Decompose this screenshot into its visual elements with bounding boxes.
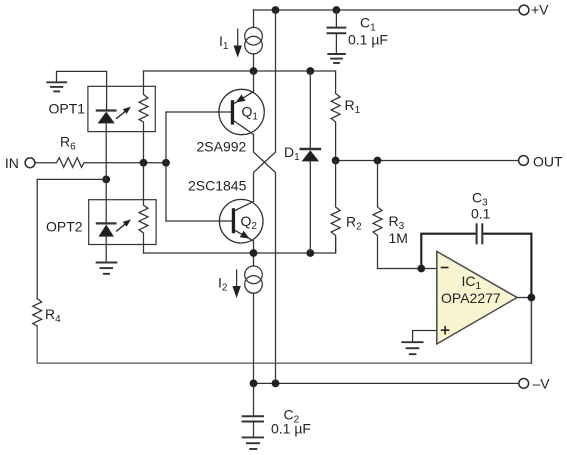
node dot inverting input [417, 265, 425, 273]
svg-text:Q1: Q1 [242, 104, 259, 123]
svg-text:0.1 µF: 0.1 µF [348, 32, 388, 48]
OPT1 box [88, 86, 155, 131]
resistor R2 [331, 161, 340, 254]
photoresistor OPT1 [139, 71, 148, 163]
resistor R4 [33, 299, 42, 327]
svg-text:1M: 1M [389, 230, 408, 246]
wire base line Q1/Q2 [165, 112, 167, 221]
wire op-amp output to node [517, 297, 531, 299]
svg-text:R2: R2 [346, 214, 362, 233]
op-amp IC1 [437, 251, 517, 344]
ground OPT2 [97, 263, 117, 274]
wire R4 node to R4 [37, 179, 106, 298]
ground op-amp [402, 342, 422, 354]
LED OPT1 [97, 86, 116, 163]
node dot D1 top [306, 67, 314, 75]
wire from +V rail down to crossover [275, 10, 277, 152]
node dot base line / IN [162, 159, 170, 167]
terminal IN [25, 158, 35, 168]
diode D1 [301, 71, 320, 253]
node dot LED chain / R4 [102, 176, 110, 184]
svg-text:OUT: OUT [533, 153, 563, 169]
wire OUT line [336, 160, 519, 162]
svg-text:Q2: Q2 [241, 213, 258, 232]
OPT2 box [89, 200, 156, 245]
wire noninverting input to ground [413, 331, 437, 342]
svg-text:0.1: 0.1 [471, 205, 491, 221]
terminal -V [519, 379, 529, 389]
node dot C1 top [333, 6, 341, 14]
resistor R3 [373, 161, 421, 269]
svg-text:+V: +V [531, 1, 549, 17]
wire op-amp output down [530, 298, 532, 364]
svg-text:R4: R4 [45, 306, 61, 325]
svg-text:OPT1: OPT1 [49, 101, 86, 117]
terminal +V [519, 5, 529, 15]
svg-text:OPA2277: OPA2277 [441, 290, 501, 306]
svg-text:–V: –V [533, 376, 551, 392]
wire node row y253 [144, 237, 336, 254]
capacitor C2 [243, 383, 263, 436]
transistor Q2 [219, 199, 263, 243]
wire -V rail [254, 382, 519, 384]
svg-text:0.1 µF: 0.1 µF [271, 421, 311, 437]
arrow OPT2 emission [117, 219, 131, 231]
wire inverting input [421, 268, 437, 270]
svg-text:I1: I1 [219, 33, 229, 52]
node dot top rail / crossover branch [272, 6, 280, 14]
wire Q1 base [166, 111, 231, 113]
ground OPT1 top [47, 71, 106, 91]
photoresistor OPT2 [139, 163, 148, 253]
wire Q2 base [166, 220, 232, 222]
resistor R6 [35, 158, 166, 168]
wire Q1 collector down + crossover [254, 135, 276, 384]
node dot I2 / C2 [250, 380, 258, 388]
LED OPT2 [97, 223, 116, 261]
ground below C1 [328, 54, 345, 63]
arrow I2 [232, 270, 240, 298]
node dot op-amp output [528, 294, 536, 302]
svg-text:IN: IN [5, 155, 19, 171]
label minus input [442, 267, 448, 269]
wire LED chain to OPT2 [105, 163, 107, 223]
ground below C2 [243, 437, 263, 449]
capacitor C1 [328, 10, 346, 53]
node dot I1/Q1 emitter [250, 67, 258, 75]
label plus input [442, 327, 449, 334]
wire rail y71 to R1 [144, 71, 336, 94]
svg-text:R6: R6 [60, 134, 76, 153]
svg-text:D1: D1 [284, 144, 300, 163]
arrow OPT1 emission [117, 107, 131, 119]
svg-text:2SC1845: 2SC1845 [188, 178, 247, 194]
svg-text:OPT2: OPT2 [46, 219, 83, 235]
node dot D1 bottom [306, 249, 314, 257]
wire +V top rail [254, 9, 519, 11]
svg-text:R1: R1 [345, 97, 361, 116]
node dot photoresistors / IN [140, 159, 148, 167]
node dot Q2 emitter / I2 [250, 249, 258, 257]
node dot crossover line / -V [272, 380, 280, 388]
node dot R3 tap [374, 157, 382, 165]
transistor Q1 [219, 89, 264, 134]
node dot R1/R2/OUT [332, 157, 340, 165]
capacitor C3 [477, 224, 483, 243]
wire C3 feedback loop [421, 234, 531, 298]
wire Q1 emitter up [253, 71, 255, 92]
wire Q2 emitter down [253, 241, 255, 253]
terminal OUT [519, 156, 529, 166]
wire crossover +V to Q2 collector [254, 152, 276, 202]
current source I2 [245, 253, 263, 383]
svg-text:2SA992: 2SA992 [197, 139, 247, 155]
current source I1 [245, 10, 263, 71]
wire feedback bottom long [37, 326, 531, 363]
svg-text:I2: I2 [218, 275, 228, 294]
resistor R1 [331, 94, 340, 161]
arrow I1 [234, 29, 242, 58]
